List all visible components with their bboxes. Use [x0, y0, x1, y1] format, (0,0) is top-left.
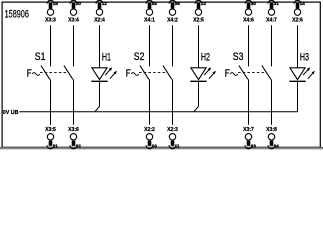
svg-text:X3:6: X3:6 [68, 127, 79, 133]
connector pin 31 (top) [268, 0, 275, 8]
terminal X4:2 [169, 9, 175, 15]
svg-text:13: 13 [201, 1, 207, 6]
svg-text:X2:5: X2:5 [193, 17, 204, 23]
connector pin 22 (bottom) [70, 141, 77, 149]
connector pin 10 (bottom) [146, 141, 153, 149]
terminal X3:4 [70, 9, 76, 15]
terminal X3:6 [70, 134, 76, 140]
wire [99, 25, 101, 68]
terminal X2:5 [195, 9, 201, 15]
wire [99, 81, 101, 106]
svg-text:X2:4: X2:4 [94, 17, 106, 23]
connector pin 23 (bottom) [245, 141, 252, 149]
wire [73, 79, 75, 125]
connector pin 20 (top) [70, 0, 77, 8]
wire [198, 25, 200, 68]
wire [198, 81, 200, 106]
connector pin 24 (bottom) [268, 141, 275, 149]
terminal X4:1 [146, 9, 152, 15]
connector pin 30 (top) [245, 0, 252, 8]
actuator F of S1 [27, 69, 40, 77]
wire [73, 25, 75, 66]
actuator F of S2 [126, 69, 139, 77]
svg-text:X2:2: X2:2 [144, 127, 155, 133]
svg-text:S1: S1 [35, 51, 46, 63]
svg-text:11: 11 [175, 144, 180, 149]
wire [172, 25, 174, 66]
net 0V UB (bus) [19, 111, 297, 113]
svg-text:0V UB: 0V UB [3, 110, 19, 116]
wire [149, 25, 151, 66]
terminal X3:5 [47, 134, 53, 140]
svg-text:H1: H1 [102, 51, 111, 63]
svg-text:X4:1: X4:1 [144, 17, 155, 23]
wire [50, 25, 52, 66]
connector pin 21 (bottom) [47, 141, 54, 149]
terminal X2:2 [146, 134, 152, 140]
svg-text:X2:3: X2:3 [167, 127, 178, 133]
svg-text:X4:7: X4:7 [266, 17, 277, 23]
svg-text:10: 10 [152, 144, 158, 149]
wire (angled junction to 0V bus) [194, 107, 199, 112]
wire (angled junction to 0V bus) [95, 107, 100, 112]
actuator F of S3 [225, 69, 238, 77]
connector pin 26 (top) [169, 0, 176, 8]
svg-text:H3: H3 [300, 51, 309, 63]
connector pin 12 (top) [96, 0, 103, 8]
svg-text:X3:7: X3:7 [243, 127, 254, 133]
terminal X4:6 [245, 9, 251, 15]
LED H2 [190, 67, 216, 81]
svg-text:31: 31 [274, 1, 280, 6]
wire [271, 25, 273, 66]
svg-text:22: 22 [76, 144, 82, 149]
svg-text:X4:2: X4:2 [167, 17, 178, 23]
svg-text:S2: S2 [134, 51, 145, 63]
connector pin 11 (bottom) [169, 141, 176, 149]
svg-text:25: 25 [152, 1, 158, 6]
wire [50, 79, 52, 125]
terminal X2:3 [169, 134, 175, 140]
wire [248, 25, 250, 66]
terminal X2:6 [294, 9, 300, 15]
svg-text:20: 20 [76, 1, 82, 6]
svg-text:S3: S3 [233, 51, 244, 63]
wire [297, 25, 299, 68]
terminal X3:7 [245, 134, 251, 140]
terminal X3:8 [268, 134, 274, 140]
svg-text:23: 23 [251, 144, 257, 149]
wire [271, 79, 273, 125]
wire [248, 79, 250, 125]
svg-text:12: 12 [102, 1, 108, 6]
svg-text:19: 19 [53, 1, 59, 6]
wire [297, 81, 299, 112]
drawing border frame [2, 2, 320, 147]
svg-text:24: 24 [274, 144, 280, 149]
svg-text:158906: 158906 [5, 8, 29, 20]
svg-text:30: 30 [251, 1, 257, 6]
svg-text:21: 21 [53, 144, 59, 149]
terminal X2:4 [96, 9, 102, 15]
terminal X4:7 [268, 9, 274, 15]
svg-text:26: 26 [175, 1, 181, 6]
wire [172, 79, 174, 125]
svg-text:X3:3: X3:3 [45, 17, 56, 23]
svg-text:X3:5: X3:5 [45, 127, 56, 133]
svg-text:X2:6: X2:6 [292, 17, 303, 23]
connector pin 13 (top) [195, 0, 202, 8]
switch S1 [40, 66, 73, 80]
svg-text:X3:8: X3:8 [266, 127, 277, 133]
svg-text:X4:6: X4:6 [243, 17, 254, 23]
connector pin 19 (top) [47, 0, 54, 8]
wire [149, 79, 151, 125]
switch S3 [238, 66, 271, 80]
svg-text:14: 14 [300, 1, 306, 6]
LED H3 [289, 67, 315, 81]
connector pin 14 (top) [294, 0, 301, 8]
svg-text:H2: H2 [201, 51, 210, 63]
terminal X3:3 [47, 9, 53, 15]
LED H1 [91, 67, 117, 81]
svg-text:X3:4: X3:4 [68, 17, 80, 23]
connector pin 25 (top) [146, 0, 153, 8]
switch S2 [139, 66, 172, 80]
